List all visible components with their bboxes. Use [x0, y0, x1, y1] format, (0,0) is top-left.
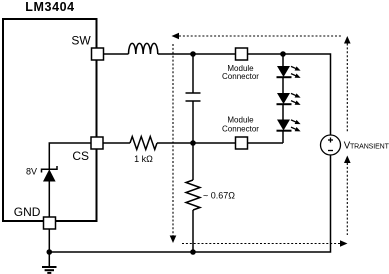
- svg-text:Connector: Connector: [222, 125, 259, 134]
- svg-text:8V: 8V: [26, 167, 37, 177]
- svg-text:1 kΩ: 1 kΩ: [134, 154, 153, 164]
- svg-text:CS: CS: [72, 149, 89, 163]
- svg-text:SW: SW: [71, 34, 91, 48]
- svg-text:Module: Module: [227, 116, 254, 125]
- svg-text:Connector: Connector: [222, 72, 259, 81]
- svg-text:LM3404: LM3404: [25, 0, 74, 14]
- svg-text:GND: GND: [14, 205, 41, 219]
- svg-text:~ 0.67Ω: ~ 0.67Ω: [203, 191, 235, 201]
- svg-text:TRANSIENT: TRANSIENT: [350, 143, 389, 150]
